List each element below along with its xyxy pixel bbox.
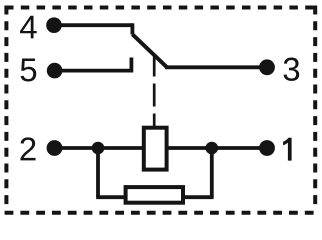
- pin label 5: [21, 58, 37, 81]
- pin label 3: [284, 58, 300, 81]
- dashed actuator link: [153, 54, 156, 127]
- branch left down: [96, 148, 100, 197]
- resistor lead left: [96, 195, 127, 199]
- pin label 4: [20, 16, 37, 39]
- wire coil to pin1: [167, 146, 268, 150]
- border frame left: [4, 6, 8, 209]
- border frame right: [313, 6, 317, 209]
- branch right down: [210, 148, 214, 197]
- wire pin3 horizontal: [165, 65, 267, 69]
- wire pin4 corner down: [130, 23, 134, 34]
- terminal dot pin 3: [259, 59, 275, 75]
- terminal dot pin 4: [46, 17, 62, 33]
- junction node right: [206, 142, 219, 155]
- relay coil K1: [144, 128, 167, 170]
- terminal dot pin 1: [259, 140, 275, 156]
- resistor R1: [126, 187, 183, 203]
- resistor lead right: [181, 195, 214, 199]
- border frame bottom: [5, 211, 317, 215]
- wire pin4 horizontal: [54, 23, 132, 27]
- pin label 1: [283, 138, 292, 161]
- terminal dot pin 5: [47, 63, 63, 79]
- border frame top: [5, 6, 317, 10]
- junction node left: [92, 142, 105, 155]
- contact tick pin5: [129, 58, 133, 73]
- wire pin5 horizontal: [55, 69, 132, 73]
- wire pin2 to coil: [55, 146, 145, 150]
- switch armature diagonal: [132, 34, 167, 67]
- pin label 2: [20, 137, 35, 160]
- terminal dot pin 2: [47, 140, 63, 156]
